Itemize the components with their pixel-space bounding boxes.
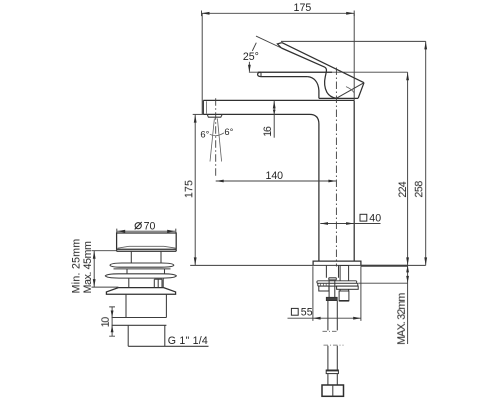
spout left face inner line (205, 101, 207, 113)
deck line thick portion right of plate (361, 265, 408, 267)
svg-text:55: 55 (301, 307, 313, 319)
dim 224 line (407, 72, 409, 344)
dim 175 top left extension (201, 13, 203, 114)
handle grip top long line (extension to both dims) (249, 71, 408, 73)
deck line under plate and right segment (313, 264, 426, 266)
aerator centerline (215, 98, 217, 177)
svg-text:6°: 6° (224, 126, 233, 137)
handle back cap (277, 43, 281, 48)
handle neck left with arc from grip (308, 77, 319, 99)
deck line left segment (190, 264, 313, 266)
dim 224 arrows (406, 72, 409, 80)
svg-text:6°: 6° (200, 128, 209, 139)
hose break dash lower (324, 344, 344, 346)
dim min-max arrows (93, 251, 96, 259)
hose lower tube (328, 374, 337, 385)
drain tube bottom edge with leader (128, 345, 208, 347)
dim 140 line (216, 180, 337, 182)
svg-text:G 1" 1/4: G 1" 1/4 (168, 335, 208, 347)
svg-text:16: 16 (262, 126, 274, 137)
dim 258 arrows (424, 41, 427, 49)
dim 25deg arrow (248, 65, 251, 72)
faucet centerline (335, 68, 337, 267)
svg-text:Min. 25mm: Min. 25mm (71, 239, 83, 294)
handle grip top object-weight overlay (258, 71, 332, 73)
dim 16 arrows (273, 101, 276, 109)
supply hose mid section (328, 346, 337, 370)
dim 175 vertical top extension (193, 113, 204, 115)
dim dia70 end ticks (117, 229, 176, 233)
svg-text:70: 70 (144, 220, 156, 232)
handle base bottom line (319, 97, 358, 99)
drain threaded tube upper (126, 294, 166, 317)
drain flange1 (110, 263, 174, 267)
drain side window (154, 279, 162, 287)
handle 25deg extension line (256, 36, 281, 48)
mounting bracket top bar (317, 281, 357, 284)
cartridge tail cap (329, 278, 337, 280)
spout left face (202, 100, 204, 114)
hose collar nut (326, 297, 337, 300)
dim 258 extension line (281, 40, 426, 42)
cartridge tail tube (326, 266, 338, 278)
svg-text:Max. 45mm: Max. 45mm (82, 241, 94, 293)
base plate (313, 261, 361, 265)
svg-text:40: 40 (369, 212, 381, 224)
handle base fillet arc (346, 87, 354, 93)
dim 16 line (273, 101, 275, 138)
svg-text:10: 10 (100, 317, 112, 328)
svg-text:25°: 25° (243, 51, 259, 63)
spray cone left line (210, 119, 214, 162)
dim 175 top end ticks (202, 11, 355, 17)
sq55 square symbol (291, 308, 298, 315)
dim 25deg leader (252, 43, 256, 51)
drain body tube (129, 278, 163, 287)
dim sq40 line (320, 223, 380, 225)
drain lower flange (106, 288, 175, 295)
handle top edge (282, 43, 364, 83)
dim 25deg arrow line (248, 62, 250, 72)
spout top edge / faucet top (203, 99, 354, 101)
mounting bracket second bar (318, 283, 358, 286)
hose ferrule top band (326, 370, 338, 372)
dim min-max extension bottom (92, 286, 119, 288)
dim 10 arrows (111, 311, 114, 318)
deck bottom extension line (358, 282, 407, 284)
drain cap bevel (118, 246, 177, 248)
svg-text:140: 140 (266, 170, 284, 182)
dim 140 arrows (216, 180, 224, 183)
stud lower nut (339, 291, 349, 301)
dim max32 arrows (406, 265, 409, 272)
svg-text:224: 224 (397, 181, 409, 197)
dim dia70 line (117, 230, 175, 232)
dim 258 line (425, 41, 427, 265)
drain cap top (117, 233, 177, 249)
drain neck2 (127, 269, 165, 274)
bracket right band (337, 286, 359, 289)
drain neck1 (131, 251, 161, 263)
dia70 symbol (135, 223, 141, 229)
handle grip tip cap line (260, 72, 262, 76)
drain tube band lines (112, 318, 167, 326)
svg-text:175: 175 (183, 180, 195, 198)
drain flange1 under line (114, 268, 171, 270)
dim sq55 arrows (313, 317, 321, 320)
spray cone right line (217, 119, 221, 162)
bracket ticks (321, 284, 327, 286)
dim 175 vertical line (194, 115, 196, 266)
supply hose upper section (328, 301, 337, 331)
dim min-max line (93, 251, 95, 287)
bracket left block (319, 286, 329, 291)
body right edge (353, 100, 355, 261)
hose end hex nut (322, 385, 344, 396)
dim sq40 arrows (320, 222, 328, 225)
dim 175 top line (202, 12, 355, 14)
spray cone angle arc (210, 133, 224, 136)
dim 10 end ticks (109, 307, 115, 336)
drain cap rim band (117, 249, 177, 251)
aerator (207, 114, 222, 117)
dim 175 top arrows (202, 12, 210, 15)
dim dia70 arrows (117, 230, 125, 233)
handle base right diagonal (336, 83, 364, 99)
handle grip bottom (261, 76, 308, 78)
svg-text:258: 258 (413, 181, 425, 198)
handle tip right face (358, 83, 364, 98)
spout bottom edge and body front curve (203, 114, 319, 261)
hose break dash upper (323, 330, 339, 332)
dim 10 line (111, 307, 113, 336)
dim 175 top right extension (353, 13, 355, 100)
drain gasket lens (105, 274, 176, 278)
dim 175 vertical arrows (194, 115, 197, 123)
svg-text:175: 175 (294, 2, 312, 14)
svg-text:MAX. 32mm: MAX. 32mm (396, 293, 408, 345)
dim min-max extension top (92, 250, 117, 252)
dim sq55 extension lines (313, 266, 361, 321)
handle grip tip arc (258, 72, 261, 76)
hose ferrule (326, 370, 338, 374)
threaded stud (340, 266, 349, 292)
dim sq55 line (288, 317, 361, 319)
drain threaded tube lower (128, 325, 165, 346)
hex nut facet line (332, 385, 334, 396)
handle bottom edge with S-curve into neck (281, 48, 336, 98)
sq40 square symbol (360, 214, 367, 221)
connector thin tube (329, 280, 335, 297)
